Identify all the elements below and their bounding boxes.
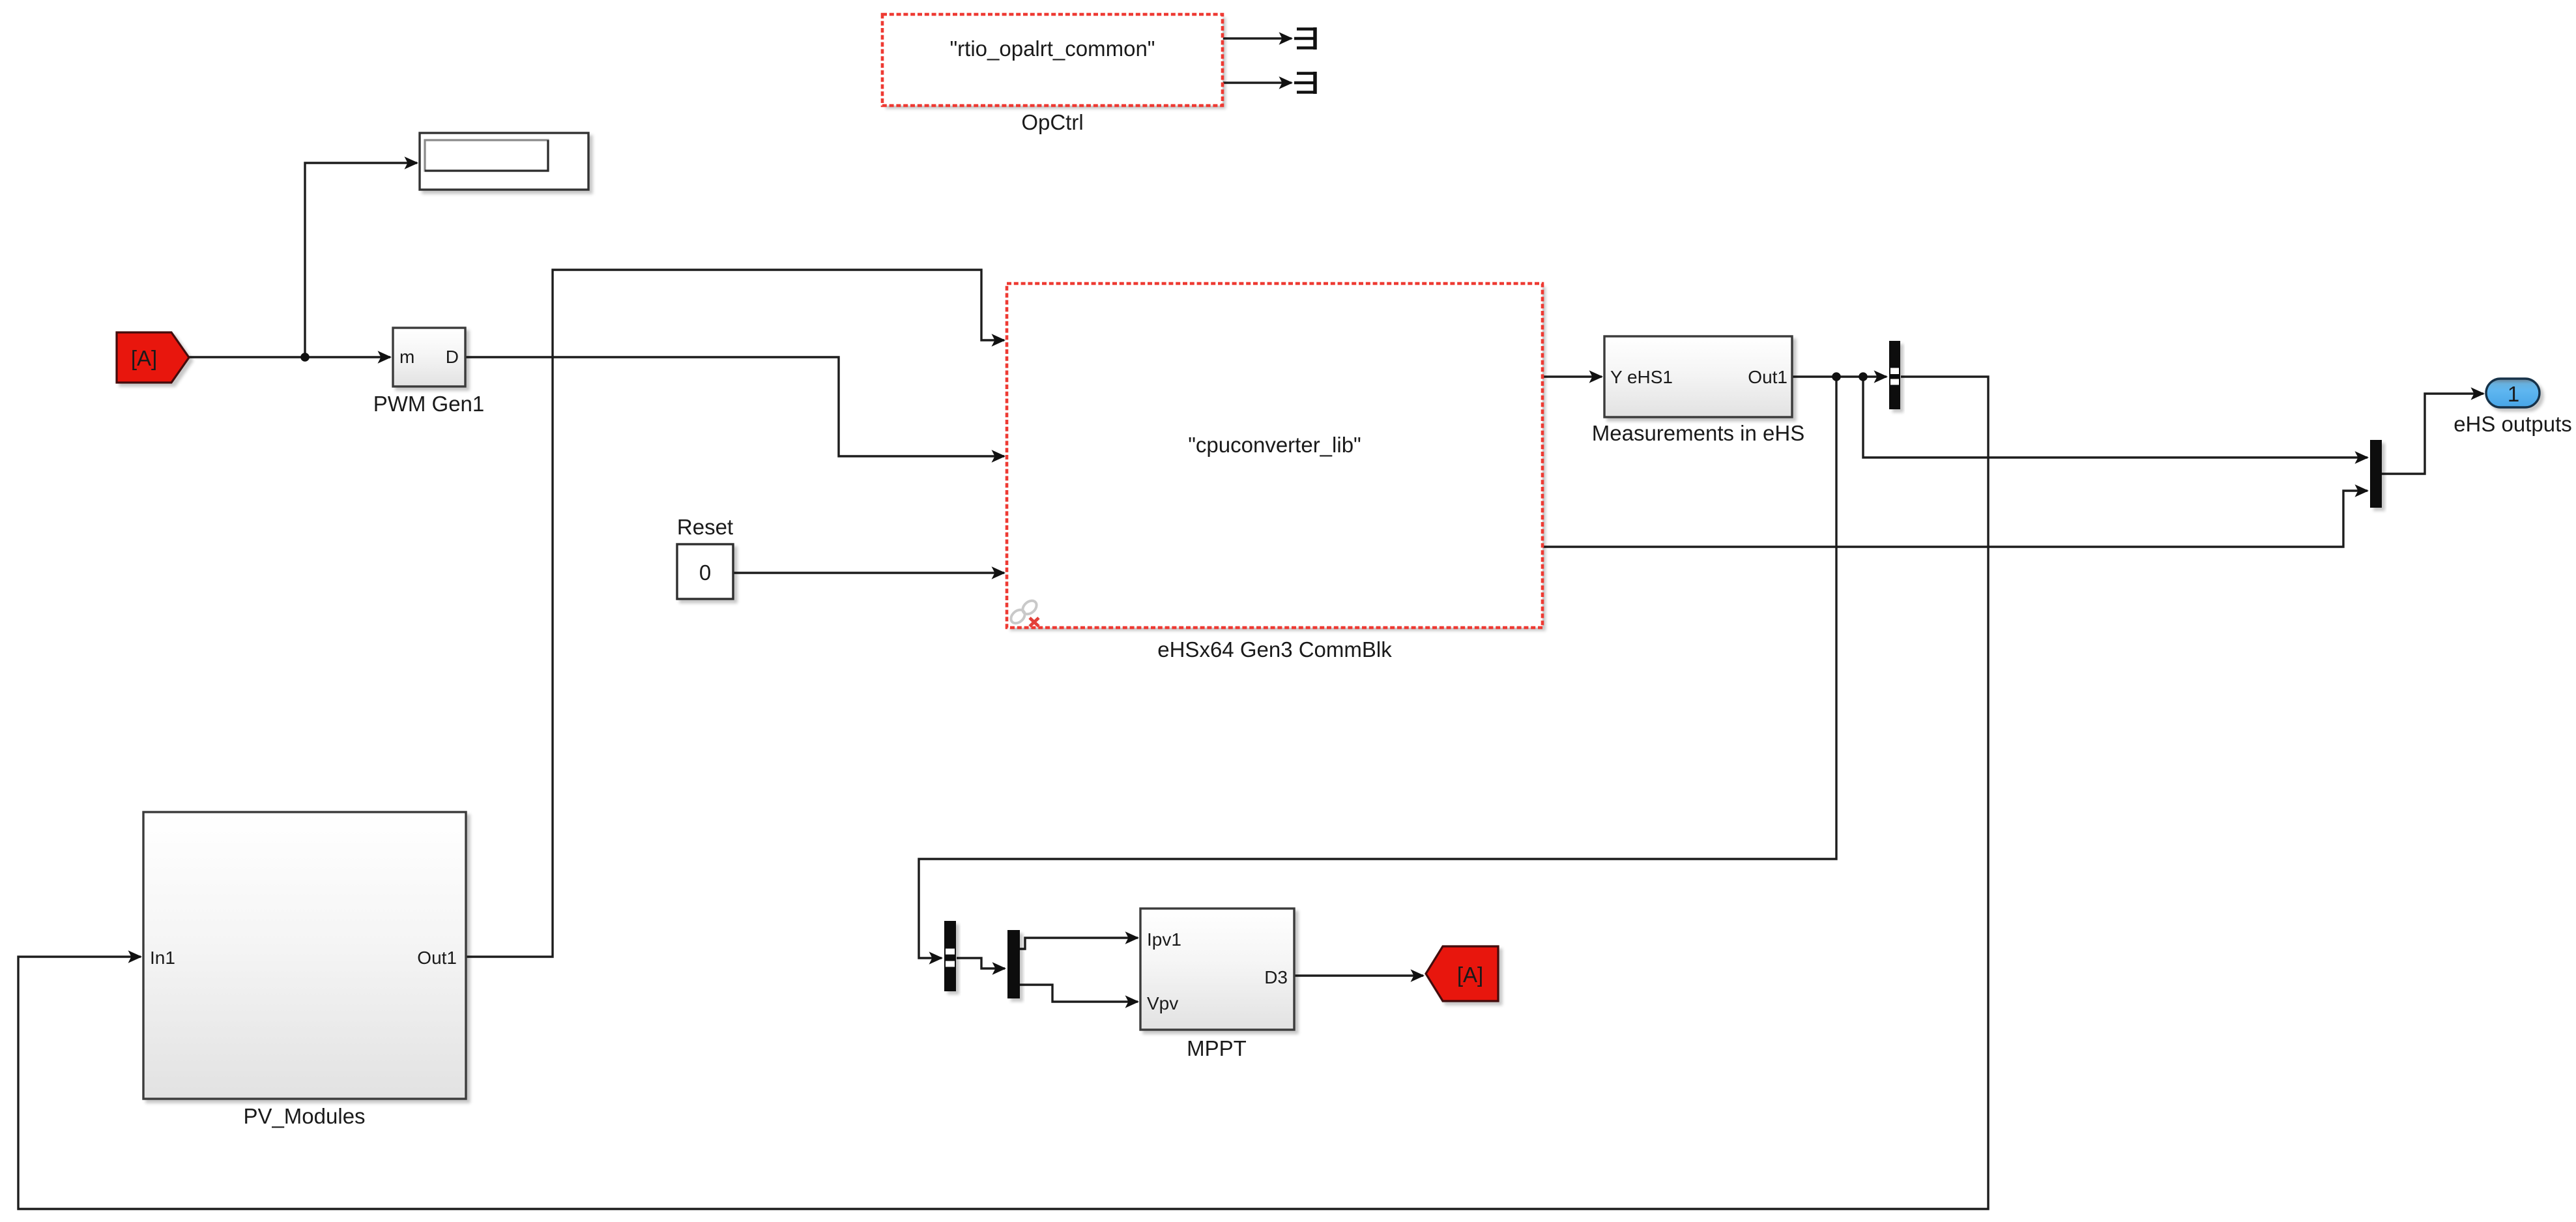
wire Measurements Out1 to Bus Selector: [1793, 375, 1887, 377]
arrowhead into PWM Gen1: [378, 351, 392, 364]
subsystem PV_Modules: [143, 812, 466, 1099]
arrowhead OpCtrl out 1: [1279, 32, 1294, 45]
subsystem PWM Gen1: [393, 328, 465, 386]
svg-text:"rtio_opalrt_common": "rtio_opalrt_common": [949, 36, 1155, 61]
svg-text:PV_Modules: PV_Modules: [243, 1104, 365, 1128]
svg-text:eHS outputs: eHS outputs: [2453, 412, 2572, 436]
bus selector 2 (near MPPT): [944, 921, 956, 991]
wire Demux out 1 to MPPT Ipv1: [1020, 938, 1138, 949]
wire from From-tag [A] to PWM Gen1: [189, 356, 390, 358]
wire Bus Selector output feedback loop to PV In1: [18, 377, 1988, 1209]
arrowhead into CommBlk input 1: [992, 334, 1006, 347]
svg-text:PWM Gen1: PWM Gen1: [373, 392, 485, 416]
wire MPPT D3 to Goto tag [A]: [1294, 974, 1423, 976]
bus selector (after Measurements): [1889, 341, 1900, 409]
wire junction down to Bus Selector 2 near MPPT: [919, 377, 1836, 958]
arrowhead into Bus Selector: [1874, 370, 1889, 383]
arrowhead into PV In1: [128, 950, 143, 963]
wire PV Out1 up and to CommBlk input 1: [465, 270, 1004, 957]
arrowhead into MPPT Ipv1: [1125, 931, 1140, 944]
wire junction branch up to Display: [305, 163, 417, 357]
wire CommBlk output 1 to Measurements: [1543, 375, 1602, 377]
svg-text:m: m: [399, 347, 414, 367]
arrowhead into Mux input 1: [2355, 451, 2369, 464]
svg-text:Reset: Reset: [677, 515, 733, 539]
wire Demux out 2 to MPPT Vpv: [1020, 985, 1138, 1002]
junction dots: [300, 353, 1868, 381]
node junction on From [A] wire: [300, 353, 310, 362]
svg-text:Out1: Out1: [1748, 367, 1787, 387]
svg-text:eHSx64 Gen3 CommBlk: eHSx64 Gen3 CommBlk: [1157, 637, 1392, 662]
svg-text:Ipv1: Ipv1: [1147, 929, 1181, 950]
arrowhead into Demux: [992, 962, 1007, 975]
arrowhead into Bus Selector 2: [929, 952, 944, 965]
subsystem eHSx64 Gen3 CommBlk (red dashed library block): [1007, 284, 1542, 628]
svg-text:In1: In1: [150, 948, 175, 968]
arrowhead into MPPT Vpv: [1125, 995, 1140, 1008]
arrowhead into CommBlk input 3: [992, 566, 1006, 579]
svg-text:1: 1: [2508, 382, 2519, 406]
svg-text:MPPT: MPPT: [1187, 1036, 1247, 1060]
svg-text:[A]: [A]: [131, 346, 157, 370]
outport eHS outputs: [2486, 379, 2540, 407]
Goto tag [A]: [1426, 946, 1498, 1001]
wire Mux output to eHS outputs port: [2382, 394, 2483, 474]
arrowhead OpCtrl out 2: [1279, 76, 1294, 89]
constant Reset 0: [677, 544, 733, 599]
wire CommBlk output 2 to Mux input 2: [1543, 491, 2367, 547]
svg-text:D3: D3: [1264, 967, 1288, 987]
node junction 1 after Measurements: [1832, 372, 1841, 381]
arrowhead into Display: [405, 156, 419, 169]
arrowhead into Goto tag: [1411, 969, 1425, 982]
svg-text:0: 0: [699, 560, 711, 585]
svg-text:D: D: [446, 347, 459, 367]
arrowhead into CommBlk input 2: [992, 450, 1006, 463]
From tag [A]: [117, 332, 189, 383]
svg-text:[A]: [A]: [1457, 963, 1483, 987]
svg-text:OpCtrl: OpCtrl: [1021, 110, 1083, 134]
wire Bus Selector 2 to Demux: [957, 958, 1005, 968]
broken library link icon: [1008, 598, 1039, 626]
terminator T2 on OpCtrl out 2: [1294, 72, 1315, 94]
node junction 2 after Measurements: [1859, 372, 1868, 381]
wire OpCtrl output 1: [1223, 37, 1292, 39]
svg-text:"cpuconverter_lib": "cpuconverter_lib": [1188, 433, 1361, 457]
arrowhead into Measurements: [1589, 370, 1604, 383]
svg-text:Vpv: Vpv: [1147, 993, 1178, 1013]
display block (scope display): [420, 133, 588, 190]
svg-text:Out1: Out1: [417, 948, 457, 968]
mux (before eHS outputs): [2370, 440, 2382, 508]
arrowhead into Mux input 2: [2355, 484, 2369, 497]
svg-text:Y eHS1: Y eHS1: [1610, 367, 1673, 387]
svg-text:Measurements in eHS: Measurements in eHS: [1592, 421, 1804, 445]
wire PWM D output to CommBlk input 2: [465, 357, 1004, 456]
terminator T1 on OpCtrl out 1: [1294, 27, 1315, 50]
wire OpCtrl output 2: [1223, 81, 1292, 83]
subsystem MPPT: [1140, 909, 1294, 1030]
arrowheads: [128, 32, 2485, 1008]
wire Reset constant to CommBlk input 3: [733, 572, 1004, 574]
demux (near MPPT): [1007, 930, 1020, 998]
wire junction down and right to Mux input 1: [1863, 377, 2367, 458]
subsystem OpCtrl (red dashed library block): [882, 14, 1223, 106]
subsystem Measurements in eHS: [1604, 336, 1792, 417]
arrowhead into eHS outputs port: [2471, 387, 2485, 400]
